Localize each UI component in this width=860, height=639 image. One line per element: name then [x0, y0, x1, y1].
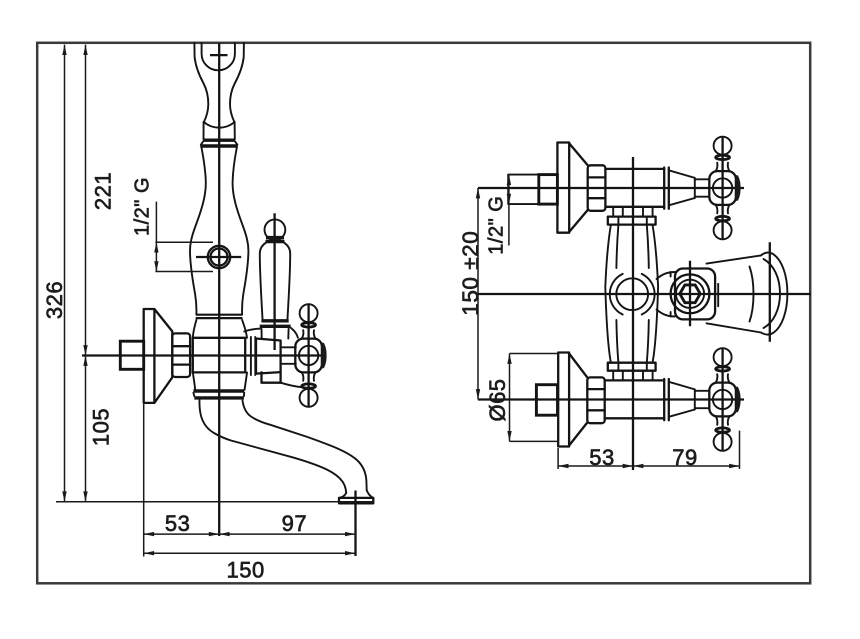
svg-text:79: 79 — [672, 445, 697, 470]
top valve body — [605, 168, 664, 170]
top pipe nipple (thick) — [539, 175, 558, 205]
spout tip rim plate — [339, 498, 373, 503]
cross handle (side view) — [295, 304, 326, 407]
bottom bonnet — [669, 382, 695, 417]
skirt to handle fillet — [281, 383, 302, 388]
top wall pipe — [508, 175, 539, 205]
valve cylinder through body — [193, 338, 245, 373]
svg-text:221: 221 — [91, 172, 116, 210]
top bonnet — [669, 170, 695, 205]
spout horizontal axis — [478, 293, 811, 295]
lever ball top — [265, 219, 286, 240]
shaft neck above top ring — [612, 208, 614, 217]
port crosshair — [196, 256, 241, 258]
lever bottle body — [260, 243, 266, 319]
handle stem — [282, 346, 296, 348]
spout hub circles — [671, 274, 710, 313]
svg-text:53: 53 — [589, 445, 614, 470]
body taper to lower collar — [193, 372, 195, 389]
bell bottom rim (thick) — [203, 138, 235, 141]
svg-text:105: 105 — [88, 408, 113, 446]
bottom hex nut — [587, 377, 604, 423]
lever neck collar — [266, 236, 284, 239]
wall pipe stub (left view) — [120, 341, 143, 369]
53 / 79 dimension line — [558, 465, 739, 467]
fork cradle cross tick — [210, 54, 228, 56]
baseline extension line — [56, 501, 374, 503]
mount horizontal centerline — [82, 354, 327, 356]
hub crosshair vertical — [689, 261, 691, 327]
cone inner curve — [750, 267, 754, 322]
shower cradle fork outline — [194, 43, 208, 122]
1/2G pipe dimension (right view) — [508, 175, 510, 246]
lever ceramic handle — [273, 213, 275, 350]
bottom wall stub (thick) — [536, 385, 557, 416]
central shaft top trim ring — [608, 217, 656, 225]
spout lower outline — [199, 400, 346, 493]
bottom connection centerline — [478, 398, 744, 400]
top handle stem — [695, 178, 710, 180]
bonnet lower skirt — [262, 372, 281, 382]
collar flare — [201, 142, 203, 145]
221 / 105 dimension line — [85, 45, 87, 502]
1/2G port dimension line — [155, 202, 157, 272]
hand-shower port circles — [208, 246, 230, 268]
top escutcheon plate — [557, 143, 569, 233]
central shaft tube walls — [605, 225, 611, 363]
main vertical centerline — [218, 43, 220, 536]
collar bottom (thick) — [200, 144, 238, 147]
top flange cone — [569, 143, 588, 165]
bottom escutcheon plate — [558, 353, 569, 447]
aerator hex — [680, 285, 700, 303]
fork bell shoulder arc — [204, 122, 235, 128]
top connection centerline — [478, 187, 744, 189]
svg-text:150 ±20: 150 ±20 — [458, 231, 483, 316]
svg-text:150: 150 — [226, 558, 264, 583]
central vertical axis — [632, 157, 634, 470]
port tangent extension lines — [155, 241, 213, 243]
central shaft bottom trim ring — [608, 363, 656, 371]
svg-text:1/2" G: 1/2" G — [132, 177, 154, 236]
lever skirt sides — [262, 329, 289, 339]
spout tip flare — [339, 490, 373, 498]
lever collar to handle fillet — [291, 328, 298, 338]
arms from shaft to spout hub — [657, 272, 676, 279]
bottom flange cone — [569, 354, 587, 378]
spout tip tick — [354, 491, 356, 557]
top cross handle — [709, 137, 740, 240]
svg-text:53: 53 — [165, 511, 190, 536]
svg-text:97: 97 — [282, 511, 307, 536]
bell rim inner — [764, 259, 781, 328]
53 / 97 dimension line — [144, 533, 356, 535]
bottom collar ring — [663, 379, 665, 420]
fork inner U slot — [202, 43, 235, 70]
body to lever fillet — [244, 329, 259, 332]
wall escutcheon flange — [144, 309, 173, 403]
150 dimension line — [144, 552, 356, 554]
upper trim collar (thick double bars) — [196, 314, 243, 316]
150 +-20 dimension line — [477, 188, 479, 400]
bottom handle stem — [695, 390, 710, 392]
Ø65 dimension — [509, 354, 511, 442]
body flare below collar — [193, 320, 197, 338]
svg-text:Ø65: Ø65 — [485, 378, 510, 421]
spout cone — [707, 255, 762, 263]
central sphere arcs — [610, 274, 623, 315]
wall plane extension line — [143, 404, 145, 557]
bottom valve body — [605, 379, 665, 381]
column vase outline — [190, 148, 206, 315]
valve sleeve rings right of body — [250, 337, 252, 375]
326 dimension line — [64, 45, 66, 502]
lever base collars (thick) — [261, 319, 288, 322]
bell rim outer — [761, 252, 787, 334]
drawing frame border — [37, 43, 810, 584]
hex nut (left view) — [172, 333, 190, 377]
spout upper outline — [243, 401, 367, 491]
bottom cross handle — [709, 348, 740, 451]
top hex nut — [588, 165, 606, 211]
bonnet cone — [256, 339, 281, 374]
shaft neck below bottom ring — [612, 371, 614, 380]
fork bell sides — [203, 122, 205, 139]
bell rim centerline — [769, 242, 771, 342]
small tab right of hub — [714, 284, 716, 307]
top collar ring — [663, 168, 665, 209]
lower trim collar (thick double bars) — [193, 389, 244, 392]
svg-text:1/2" G: 1/2" G — [486, 196, 508, 255]
svg-text:326: 326 — [42, 281, 67, 319]
spout hub block — [675, 269, 715, 320]
